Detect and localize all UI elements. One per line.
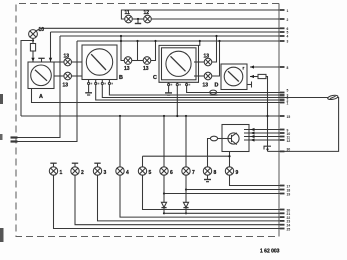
lamp 13 (mid pair left) — [124, 57, 132, 65]
wire: transistor box bottom down to lamp 9 — [229, 152, 231, 168]
wire: B terminal to bus y97.5 (battery loop line) — [102, 85, 283, 98]
wire: B terminal to bus y100 / terminal 12 — [96, 85, 283, 100]
svg-text:1: 1 — [60, 170, 63, 176]
gauge A dial — [31, 65, 52, 86]
transistor output line 2 with arrowhead / terminal 16 — [244, 132, 283, 134]
connector oval on loop — [327, 95, 338, 101]
junction on transistor drop — [228, 155, 230, 157]
bus wire 1 from lamp 10 to terminal 3 — [41, 27, 284, 29]
thick stub at left end y137.5 — [11, 136, 18, 138]
gauge C needle — [171, 56, 186, 71]
wire between mid pair lamps — [132, 60, 143, 62]
thick stub at left end y141.5 — [11, 140, 18, 142]
junction below lamp 10 — [32, 39, 34, 41]
wire: y116 down to lamp 6 — [163, 116, 165, 167]
terminal stub right of gauge D bottom — [247, 84, 252, 86]
wire: bus 2 drop into gauge A with arrowhead — [50, 32, 52, 62]
junction on rail at x199.8 — [199, 40, 201, 42]
ground below gauge B — [88, 85, 90, 93]
svg-text:5: 5 — [149, 170, 152, 176]
gauge B box — [82, 45, 117, 80]
lamp 13 (right pair upper) — [204, 58, 212, 66]
terminal tick 8 — [280, 66, 285, 68]
transistor base wire — [222, 138, 232, 140]
bus rail 4: corner at x77 — [77, 40, 283, 42]
svg-text:13: 13 — [203, 83, 209, 89]
junction drop from rail between mid lamps — [137, 41, 139, 61]
wire: lamp 8 up to base resistor — [208, 139, 211, 168]
svg-text:5: 5 — [287, 89, 289, 93]
terminal tick 13 — [280, 102, 285, 104]
transistor output line 1 with arrowhead / terminal 15 — [244, 129, 283, 131]
diode 1 — [161, 202, 166, 207]
terminal tick 6 — [280, 40, 285, 42]
svg-text:r: r — [243, 66, 245, 71]
wire: bracket from lamp 11 up to top feed line 1 — [121, 10, 283, 19]
svg-text:12: 12 — [144, 10, 150, 16]
svg-text:13: 13 — [124, 66, 130, 72]
wire: C middle terminal down to line y116 — [176, 86, 178, 116]
connector bracket on vertical x266 — [264, 146, 271, 149]
junction y116 lamp 4 — [119, 115, 121, 117]
svg-text:A: A — [39, 94, 43, 100]
lamp 13 (left pair upper) — [64, 58, 72, 66]
svg-text:3: 3 — [287, 40, 289, 44]
lamp 13 (left pair lower) — [64, 72, 72, 80]
terminal tick 11 — [280, 97, 285, 99]
lamp 1 — [49, 167, 57, 175]
wire: base resistor to box — [218, 138, 222, 140]
transistor unit box — [222, 125, 249, 152]
wire: resistor to gauge A with arrowhead — [32, 51, 34, 62]
svg-text:4: 4 — [287, 96, 289, 100]
junction between lamps 11 and 12 — [137, 18, 139, 20]
wire: right pair upper lamp up to bus 3 — [212, 36, 217, 62]
boundary right edge — [278, 4, 280, 237]
terminal tick 19 on loop return — [280, 150, 285, 152]
ground below gauge C — [168, 86, 170, 93]
junction y116 lamp 6 — [163, 115, 165, 117]
terminal T on gauge A top — [41, 58, 43, 62]
transistor emitter — [232, 140, 237, 144]
junction y116 fuse vertical — [266, 115, 268, 117]
wire: right pair lower lamp up to rail — [212, 41, 220, 76]
terminal T cap on lamp 2 — [74, 163, 76, 167]
wire: lamp 6 bottom down to diode 1 — [163, 175, 165, 202]
svg-text:1 62 003: 1 62 003 — [260, 249, 280, 255]
wire: fuse to vertical x266 — [266, 77, 268, 152]
svg-text:7: 7 — [192, 170, 195, 176]
wire: lamp 10 top to bus y28 — [36, 28, 41, 31]
wire: diode 2 to bus y212.5 — [185, 208, 187, 214]
lamp 6 — [160, 167, 168, 175]
terminal T cap on lamp 1 — [53, 163, 55, 167]
wire: C terminal drop to bus y92.5 / terminal 9 — [187, 86, 283, 93]
svg-text:13: 13 — [63, 83, 69, 89]
connector symbol below gauge D left — [210, 90, 217, 94]
svg-text:2: 2 — [287, 18, 289, 22]
svg-text:9: 9 — [236, 170, 239, 176]
terminal tick 12 — [280, 99, 285, 101]
wire: lamp 7 bottom down to diode 2 — [185, 175, 187, 202]
resistor below lamp 10 — [30, 44, 35, 52]
svg-text:8: 8 — [287, 66, 289, 70]
wire: lamp 3 bottom to terminal 26 — [98, 175, 284, 221]
svg-text:1: 1 — [287, 9, 289, 13]
svg-text:3: 3 — [104, 170, 107, 176]
svg-text:6: 6 — [170, 170, 173, 176]
long supply line y116 from x21 to terminal 14 — [21, 115, 283, 117]
wire: lamp 7 bottom tap to terminal 21 — [186, 189, 283, 191]
lamp 2 — [71, 167, 79, 175]
svg-text:15: 15 — [287, 115, 291, 119]
lamp 11 — [125, 15, 133, 23]
gauge D dial — [224, 67, 243, 86]
svg-text:B: B — [119, 75, 123, 81]
transistor circle — [228, 133, 239, 144]
terminal tick 4 — [280, 31, 285, 33]
gauge D needle — [228, 71, 239, 81]
scan edge smudge 2 — [0, 134, 3, 140]
bus wire 2: corner down into gauge A — [51, 31, 284, 33]
bus wire 3: corner at x60 — [60, 35, 283, 37]
transistor collector — [232, 133, 237, 137]
gauge B needle — [91, 54, 106, 70]
wire: mid pair right lamp up to rail — [151, 41, 156, 61]
wire: lamp 4 bottom to terminal 25 — [120, 175, 283, 217]
lamp 13 (mid pair right) — [143, 57, 151, 65]
wire: lamp 2 bottom to terminal 27 — [75, 175, 283, 225]
svg-text:13: 13 — [204, 54, 210, 60]
svg-text:13: 13 — [143, 66, 149, 72]
stub linking bus 3 and rail at x121 — [120, 36, 122, 41]
gauge D box — [221, 64, 247, 90]
wire: link line y158.3 from lamp 5 to transistor bottom — [143, 155, 230, 157]
lamp 12 — [144, 15, 152, 23]
gauge B dial — [86, 49, 112, 75]
wire: lamp 11 to lamp 12 — [132, 18, 143, 20]
lamp 9 — [225, 167, 233, 175]
wire: rail drop to lamp 13 mid-pair left — [121, 41, 124, 61]
wire: gauge C to lamps 13 right pair — [194, 61, 204, 63]
terminal tick 14 — [280, 115, 285, 117]
lamp 7 — [182, 167, 190, 175]
base resistor oval — [210, 136, 217, 141]
junction y116 C terminal — [176, 115, 178, 117]
gauge B bottom terminal circles — [88, 82, 90, 84]
wire: lamp 5 up stub — [142, 156, 144, 167]
terminal T cap on lamp 3 — [97, 163, 99, 167]
junction y116 lamp 7 — [185, 115, 187, 117]
terminal designator marks under gauge B — [91, 83, 93, 85]
transistor output line 3 with arrowhead / terminal 17 — [244, 136, 283, 138]
svg-text:11: 11 — [125, 10, 131, 16]
wire: y116 down to lamp 4 — [119, 116, 121, 167]
lamp 8 — [203, 167, 211, 175]
svg-text:2: 2 — [81, 170, 84, 176]
svg-text:10: 10 — [39, 27, 45, 33]
gauge C box — [162, 48, 197, 80]
transistor base bar — [231, 135, 233, 142]
terminal tick 3 — [280, 27, 285, 29]
svg-text:13: 13 — [64, 54, 70, 60]
terminal designator marks under gauge C — [171, 84, 173, 86]
terminal tick 2 — [280, 18, 285, 20]
lamp 10 — [29, 30, 38, 39]
lamp 5 — [138, 167, 146, 175]
wire: lamp 9 bottom to terminal 20 — [230, 175, 284, 186]
junction on rail at x121 — [120, 40, 122, 42]
svg-text:19: 19 — [287, 192, 291, 196]
wire: B terminal to bus y95 / terminal 10 — [109, 85, 283, 95]
wire: diode 1 to bus y212.5 — [163, 208, 165, 214]
scan edge smudge 3 — [0, 228, 4, 242]
terminal tick 5 — [280, 35, 285, 37]
svg-text:C: C — [153, 75, 157, 81]
wire: gauge A bottom terminal to bus y102.5 / terminal 13 — [32, 89, 284, 103]
lamp 13 (right pair lower) — [204, 72, 212, 80]
svg-text:D: D — [215, 83, 219, 89]
battery loop wire through connector — [268, 98, 339, 152]
wire: lamp 6 bottom tap to terminal 22 — [164, 193, 283, 195]
svg-text:12: 12 — [287, 139, 291, 143]
wire: gauge A right to warning lamps 13 — [54, 61, 64, 63]
lamp 3 — [93, 167, 101, 175]
terminal tick 1 — [280, 9, 285, 11]
transistor output line 4 with arrowhead / terminal 18 — [244, 139, 283, 141]
gauge C dial — [166, 51, 191, 76]
gauge A box — [28, 62, 54, 89]
wire: outer frame of gauge C fed from rail — [159, 41, 200, 82]
diode 2 — [183, 202, 188, 207]
wire: lamp 12 to terminal 2 — [151, 18, 283, 20]
gauge A needle — [35, 70, 47, 81]
wire: lamps 13 left pair to gauge B — [72, 61, 83, 63]
wire: lamp 1 bottom to terminal 28 — [54, 175, 284, 229]
junction on bus 3 at x121 — [120, 35, 122, 37]
wire: terminal 8 into gauge D top right with arrowhead — [250, 66, 283, 68]
wire with arrowhead into gauge D middle right — [250, 76, 258, 78]
fuse on gauge D feed — [258, 74, 266, 78]
gauge C bottom terminal circles — [168, 84, 170, 86]
wire: junction left then down to long line y116 — [21, 41, 33, 117]
lamp 4 — [116, 167, 124, 175]
svg-text:8: 8 — [214, 170, 217, 176]
svg-text:4: 4 — [126, 170, 129, 176]
ground below lamp 8 — [207, 175, 209, 180]
terminal tick 10 — [280, 94, 285, 96]
terminal tick 9 — [280, 92, 285, 94]
diode bus y212.5 to terminal 24 — [164, 212, 283, 214]
svg-text:4: 4 — [287, 35, 289, 39]
wire: long vertical x77 from rail corner down, exits left at y141.5 — [11, 41, 77, 142]
wire: lamp 10 bottom stub — [32, 38, 34, 43]
svg-text:25: 25 — [287, 227, 291, 231]
dashed boundary frame — [16, 4, 279, 237]
ground stub between lamps 11 and 12 — [137, 19, 139, 24]
svg-text:30: 30 — [287, 147, 291, 151]
scan edge smudge 1 — [0, 94, 3, 104]
wire: lamp 5 bottom to terminal 23 — [143, 175, 284, 210]
wire: long vertical x60 from bus 3 down, exits left at y137.5 — [11, 36, 60, 138]
wire: y116 down to lamp 7 — [185, 116, 187, 167]
